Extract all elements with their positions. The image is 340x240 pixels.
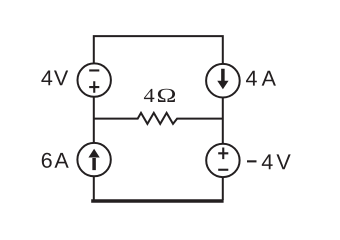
label 4 A (246, 71, 257, 86)
wire left rail mid (93, 97, 95, 142)
current source I1 4A circle (206, 64, 240, 98)
wire top loop (94, 36, 223, 64)
V1 minus sign (89, 69, 99, 71)
I2 up arrow (88, 149, 99, 170)
current source I2 6A circle (77, 143, 110, 176)
label 4 V (41, 71, 52, 86)
V2 minus sign (218, 169, 228, 171)
label 4 ohm (144, 89, 154, 102)
voltage source V1 4V circle (78, 63, 111, 96)
I1 down arrow (217, 69, 228, 90)
label -4 V minus bar (247, 160, 257, 162)
wire bottom (91, 199, 223, 203)
label -4 V text (262, 154, 273, 169)
voltage source V2 -4V circle (206, 144, 239, 177)
wire right rail mid (222, 98, 224, 143)
label 6 A (42, 153, 52, 168)
wire left rail bottom (93, 177, 95, 200)
wire middle with resistor R 4ohm (94, 113, 223, 124)
V1 plus sign (89, 81, 99, 93)
V2 plus sign (218, 148, 228, 160)
wire right rail bottom (222, 178, 224, 200)
